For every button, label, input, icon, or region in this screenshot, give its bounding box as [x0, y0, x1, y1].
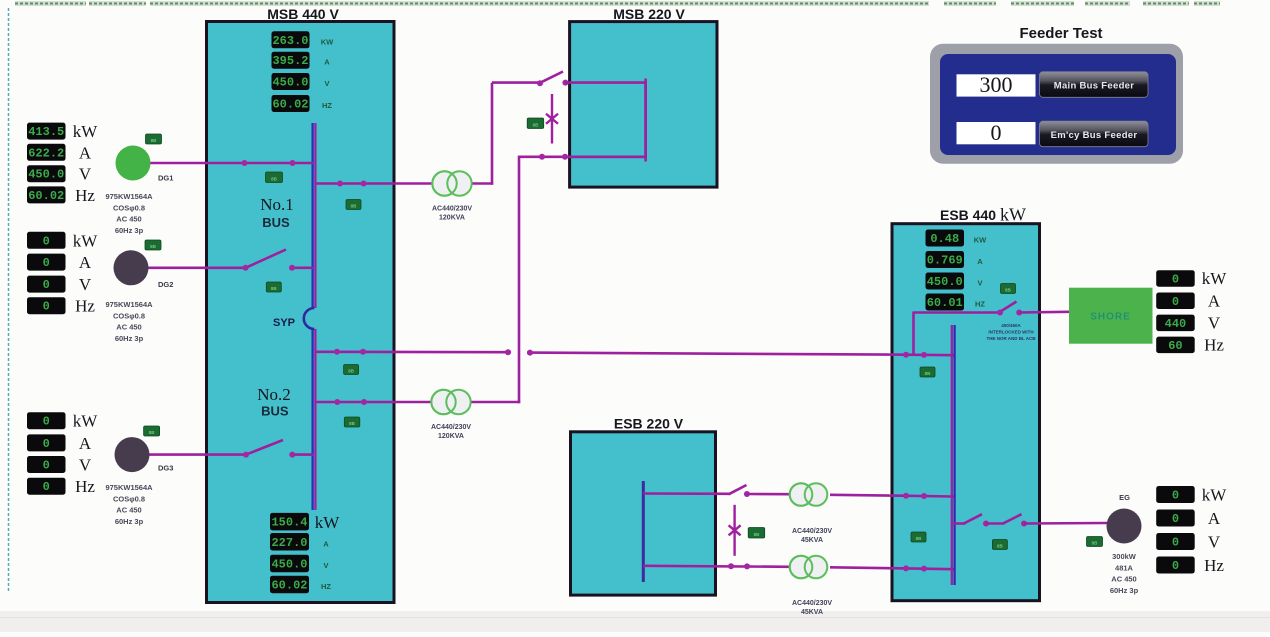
- svg-text:60.01: 60.01: [927, 296, 963, 310]
- svg-text:8B: 8B: [351, 203, 358, 208]
- svg-text:Hz: Hz: [1204, 556, 1224, 575]
- svg-text:400/450A: 400/450A: [1001, 323, 1021, 328]
- svg-text:60.02: 60.02: [271, 578, 307, 592]
- svg-text:EG: EG: [1119, 493, 1130, 502]
- svg-text:THE NOR AND BL ACB: THE NOR AND BL ACB: [986, 336, 1036, 341]
- svg-text:45KVA: 45KVA: [801, 537, 823, 544]
- svg-text:AC 450: AC 450: [116, 215, 141, 224]
- svg-text:413.5: 413.5: [28, 125, 64, 139]
- svg-text:AC440/230V: AC440/230V: [792, 600, 832, 607]
- svg-text:0: 0: [1172, 489, 1179, 503]
- svg-text:kW: kW: [1000, 205, 1026, 225]
- svg-text:8B: 8B: [533, 122, 540, 127]
- svg-text:V: V: [977, 279, 982, 288]
- svg-text:V: V: [1208, 314, 1221, 333]
- svg-text:8B: 8B: [271, 286, 278, 291]
- svg-text:0: 0: [43, 480, 50, 494]
- svg-text:0: 0: [43, 234, 50, 248]
- svg-text:V: V: [79, 456, 92, 475]
- svg-text:Em'cy Bus Feeder: Em'cy Bus Feeder: [1051, 130, 1138, 141]
- svg-text:450.0: 450.0: [28, 168, 64, 182]
- svg-text:0.48: 0.48: [930, 232, 959, 246]
- svg-text:150.4: 150.4: [271, 516, 307, 530]
- svg-text:8B: 8B: [149, 430, 156, 435]
- svg-text:AC 450: AC 450: [1111, 575, 1136, 584]
- svg-text:395.2: 395.2: [272, 54, 308, 68]
- svg-text:COSφ0.8: COSφ0.8: [113, 494, 145, 503]
- svg-text:8B: 8B: [349, 421, 356, 426]
- svg-text:DG2: DG2: [158, 280, 173, 289]
- svg-text:8B: 8B: [916, 536, 923, 541]
- svg-text:Hz: Hz: [75, 477, 95, 496]
- svg-text:A: A: [977, 257, 983, 266]
- svg-text:AC 450: AC 450: [116, 323, 141, 332]
- svg-text:300kW: 300kW: [1112, 552, 1137, 561]
- svg-text:INTERLOCKED WITH: INTERLOCKED WITH: [988, 330, 1033, 335]
- svg-text:8B: 8B: [754, 532, 761, 537]
- svg-text:0: 0: [1172, 272, 1179, 286]
- svg-text:AC440/230V: AC440/230V: [431, 424, 471, 431]
- svg-text:8B: 8B: [271, 176, 278, 181]
- svg-text:MSB 220 V: MSB 220 V: [613, 6, 685, 22]
- svg-text:450.0: 450.0: [271, 557, 307, 571]
- svg-text:HZ: HZ: [975, 300, 985, 309]
- svg-text:No.2: No.2: [257, 385, 291, 404]
- svg-text:0: 0: [43, 256, 50, 270]
- svg-text:Hz: Hz: [1204, 336, 1224, 355]
- svg-text:BUS: BUS: [262, 215, 290, 230]
- svg-text:60.02: 60.02: [28, 189, 64, 203]
- svg-text:300: 300: [980, 72, 1013, 97]
- svg-text:120KVA: 120KVA: [438, 433, 464, 440]
- svg-text:Hz: Hz: [75, 186, 95, 205]
- svg-text:60.02: 60.02: [272, 98, 308, 112]
- svg-text:DG3: DG3: [158, 464, 173, 473]
- svg-text:8B: 8B: [1005, 287, 1012, 292]
- svg-text:481A: 481A: [1115, 563, 1134, 572]
- svg-text:kW: kW: [1202, 269, 1228, 288]
- svg-text:AC440/230V: AC440/230V: [432, 206, 472, 213]
- svg-text:AC 450: AC 450: [116, 506, 141, 515]
- svg-text:DG1: DG1: [158, 174, 173, 183]
- svg-text:Main Bus Feeder: Main Bus Feeder: [1054, 81, 1135, 92]
- svg-text:COSφ0.8: COSφ0.8: [113, 203, 145, 212]
- svg-text:BUS: BUS: [261, 404, 289, 419]
- svg-text:kW: kW: [73, 231, 99, 250]
- svg-text:975KW1564A: 975KW1564A: [105, 483, 153, 492]
- svg-text:8B: 8B: [150, 244, 157, 249]
- svg-text:8B: 8B: [997, 543, 1004, 548]
- svg-text:45KVA: 45KVA: [801, 609, 823, 616]
- svg-text:0: 0: [1172, 512, 1179, 526]
- svg-text:60Hz 3p: 60Hz 3p: [115, 334, 144, 343]
- svg-text:No.1: No.1: [260, 195, 294, 214]
- svg-text:SYP: SYP: [273, 317, 295, 329]
- svg-text:8B: 8B: [925, 371, 932, 376]
- svg-text:COSφ0.8: COSφ0.8: [113, 311, 145, 320]
- svg-text:ESB 220 V: ESB 220 V: [614, 416, 684, 432]
- svg-text:0: 0: [43, 278, 50, 292]
- svg-text:A: A: [324, 58, 330, 67]
- svg-text:A: A: [79, 253, 92, 272]
- svg-text:60Hz 3p: 60Hz 3p: [115, 517, 144, 526]
- svg-text:Feeder Test: Feeder Test: [1019, 25, 1102, 42]
- svg-text:0: 0: [991, 120, 1002, 145]
- svg-text:Hz: Hz: [75, 297, 95, 316]
- svg-text:A: A: [1208, 292, 1221, 311]
- svg-text:kW: kW: [1202, 486, 1228, 505]
- svg-text:60: 60: [1168, 339, 1182, 353]
- svg-text:0: 0: [1172, 559, 1179, 573]
- svg-text:KW: KW: [321, 37, 334, 46]
- svg-text:V: V: [324, 79, 329, 88]
- svg-text:263.0: 263.0: [272, 34, 308, 48]
- svg-text:A: A: [323, 540, 329, 549]
- svg-text:AC440/230V: AC440/230V: [792, 528, 832, 535]
- svg-text:120KVA: 120KVA: [439, 215, 465, 222]
- svg-text:V: V: [323, 561, 328, 570]
- svg-text:0: 0: [1172, 295, 1179, 309]
- svg-text:0.769: 0.769: [927, 254, 963, 268]
- svg-text:0: 0: [43, 459, 50, 473]
- svg-text:0: 0: [43, 415, 50, 429]
- svg-text:KW: KW: [974, 236, 987, 245]
- svg-text:A: A: [79, 434, 92, 453]
- svg-text:MSB 440 V: MSB 440 V: [267, 6, 339, 22]
- svg-text:kW: kW: [73, 122, 99, 141]
- svg-text:SHORE: SHORE: [1090, 312, 1131, 323]
- svg-text:975KW1564A: 975KW1564A: [105, 300, 153, 309]
- svg-text:V: V: [79, 165, 92, 184]
- svg-text:A: A: [1208, 509, 1221, 528]
- svg-text:8B: 8B: [348, 368, 355, 373]
- svg-text:A: A: [79, 143, 92, 162]
- svg-text:450.0: 450.0: [927, 275, 963, 289]
- svg-text:60Hz 3p: 60Hz 3p: [1110, 586, 1139, 595]
- svg-text:0: 0: [43, 437, 50, 451]
- svg-text:8B: 8B: [151, 138, 158, 143]
- svg-text:0: 0: [1172, 536, 1179, 550]
- svg-text:V: V: [1208, 533, 1221, 552]
- svg-text:450.0: 450.0: [272, 76, 308, 90]
- svg-text:440: 440: [1165, 317, 1187, 331]
- svg-text:HZ: HZ: [321, 582, 331, 591]
- svg-text:kW: kW: [315, 513, 341, 532]
- svg-text:227.0: 227.0: [271, 536, 307, 550]
- svg-text:622.2: 622.2: [28, 146, 64, 160]
- svg-text:ESB 440: ESB 440: [940, 207, 996, 223]
- svg-text:kW: kW: [73, 412, 99, 431]
- svg-text:975KW1564A: 975KW1564A: [105, 192, 153, 201]
- svg-text:V: V: [79, 275, 92, 294]
- svg-text:8B: 8B: [1092, 540, 1099, 545]
- svg-text:0: 0: [43, 300, 50, 314]
- svg-text:60Hz 3p: 60Hz 3p: [115, 226, 144, 235]
- svg-text:HZ: HZ: [322, 101, 332, 110]
